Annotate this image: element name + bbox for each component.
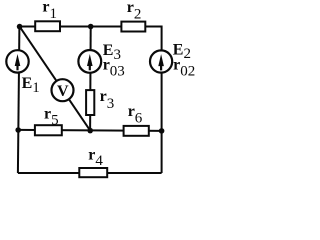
svg-text:E1: E1 xyxy=(22,75,40,96)
svg-text:r6: r6 xyxy=(128,103,143,126)
svg-text:r4: r4 xyxy=(88,147,103,170)
svg-text:r1: r1 xyxy=(42,0,57,22)
svg-text:r3: r3 xyxy=(100,88,115,112)
svg-text:V: V xyxy=(57,83,69,100)
svg-text:r2: r2 xyxy=(127,0,142,23)
